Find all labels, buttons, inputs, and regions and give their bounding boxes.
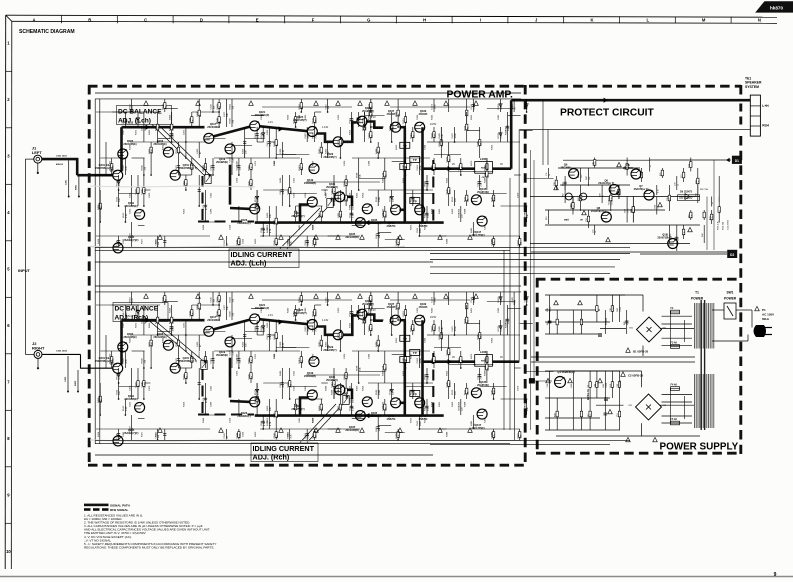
wire thick rails Q438/Q440 to Q442/Q444 <box>400 320 423 415</box>
svg-text:C536: C536 <box>446 381 448 387</box>
transistor Q405 (Lch) <box>118 139 137 159</box>
svg-text:R451: R451 <box>471 307 473 313</box>
svg-text:C414: C414 <box>477 373 479 379</box>
svg-text:6800: 6800 <box>315 118 317 124</box>
transistor Q435 (Lch) <box>362 204 380 225</box>
svg-text:24.5V: 24.5V <box>430 123 437 126</box>
svg-text:R461: R461 <box>439 208 441 214</box>
wire thick signal path Q422-Q426-Q430-Q434-Q438 <box>213 315 383 335</box>
svg-text:F5 4A: F5 4A <box>671 418 678 421</box>
svg-text:R430: R430 <box>155 125 157 131</box>
svg-text:SCHEMATIC DIAGRAM: SCHEMATIC DIAGRAM <box>19 29 75 35</box>
protect circuit / power supply right dashed edge <box>739 85 742 454</box>
fuse F3 4A <box>671 341 680 348</box>
svg-text:R456: R456 <box>249 357 251 363</box>
svg-text:C471: C471 <box>255 353 257 359</box>
wire thick signal path J1 to Q401 <box>42 158 114 175</box>
svg-text:0V: 0V <box>500 163 503 166</box>
svg-text:R460: R460 <box>452 208 454 214</box>
svg-text:2SC2330L: 2SC2330L <box>207 126 219 129</box>
svg-text:C554: C554 <box>464 125 466 131</box>
fuse F5 4A <box>671 418 680 425</box>
svg-text:47000/4: 47000/4 <box>620 379 622 387</box>
svg-text:C532: C532 <box>312 432 314 438</box>
wire thick signal path Q402 to Q418 <box>122 318 205 365</box>
svg-text:K: K <box>590 17 593 22</box>
svg-text:D: D <box>200 17 203 22</box>
svg-text:R420: R420 <box>255 238 257 244</box>
svg-text:R593: R593 <box>255 325 257 331</box>
transistor Q401 1/2 mirror (Rch) <box>95 356 123 373</box>
svg-text:C444: C444 <box>190 310 192 316</box>
svg-text:C419: C419 <box>230 224 232 230</box>
svg-text:R472: R472 <box>136 129 138 135</box>
svg-text:2SK270BL(or Y): 2SK270BL(or Y) <box>179 167 197 170</box>
svg-text:1.5V: 1.5V <box>216 315 221 318</box>
svg-text:2.1V: 2.1V <box>268 314 273 317</box>
transistor Q427 (Lch) <box>291 197 317 218</box>
svg-text:R442: R442 <box>432 114 434 120</box>
svg-text:C449: C449 <box>237 357 239 363</box>
svg-text:2SA872(E): 2SA872(E) <box>477 191 489 194</box>
transistor Q437 (Lch) <box>387 109 401 132</box>
wire protect-supply boundary columns <box>531 150 553 430</box>
wires protect circuit network <box>530 100 727 252</box>
svg-text:R413: R413 <box>299 357 301 363</box>
svg-text:R431: R431 <box>432 325 434 331</box>
svg-text:6800: 6800 <box>442 141 444 147</box>
svg-text:LEFT: LEFT <box>32 150 43 155</box>
svg-text:2SC845: 2SC845 <box>419 306 428 309</box>
svg-text:B: B <box>88 17 91 22</box>
svg-text:2SA995L(F): 2SA995L(F) <box>237 222 250 225</box>
svg-text:C441: C441 <box>217 296 219 302</box>
svg-text:2SA965(Y): 2SA965(Y) <box>326 379 338 382</box>
svg-text:C471: C471 <box>255 160 257 166</box>
svg-text:C587: C587 <box>491 389 493 395</box>
svg-text:R426: R426 <box>267 212 269 218</box>
label box IDLING CURRENT ADJ. (Lch) <box>229 208 327 268</box>
svg-text:R413: R413 <box>396 337 398 343</box>
svg-text:R588: R588 <box>356 172 358 178</box>
svg-text:C439: C439 <box>280 148 282 154</box>
transistor Q425 (Lch) <box>293 115 317 137</box>
svg-text:1k: 1k <box>677 184 679 186</box>
fuse F4 4A <box>671 383 680 390</box>
svg-text:R593: R593 <box>344 180 346 186</box>
svg-text:R416: R416 <box>349 385 351 391</box>
svg-text:C417: C417 <box>123 322 125 328</box>
svg-text:C441: C441 <box>305 239 307 245</box>
svg-text:wait: wait <box>564 219 569 222</box>
svg-text:R556: R556 <box>299 103 301 109</box>
svg-text:R489: R489 <box>439 325 441 331</box>
svg-text:2SA965(Y): 2SA965(Y) <box>362 303 374 306</box>
svg-text:R584: R584 <box>425 373 427 379</box>
svg-text:2.2k: 2.2k <box>698 180 700 184</box>
svg-text:24.5V: 24.5V <box>430 316 437 319</box>
svg-text:C532: C532 <box>349 212 351 218</box>
svg-text:R473: R473 <box>411 224 413 230</box>
svg-text:R543: R543 <box>163 296 165 302</box>
transistor Q401 7/2 (Lch) <box>170 163 197 180</box>
wire thick Lch output through L405 to speaker <box>423 98 751 172</box>
svg-text:R541: R541 <box>116 180 118 186</box>
svg-text:G: G <box>367 17 370 22</box>
wire thick signal path Q421-Q425-Q429-Q433-Q437 <box>213 122 383 142</box>
test point TP box <box>400 142 410 148</box>
transistor Q445 (Lch) <box>471 187 489 205</box>
svg-text:C424: C424 <box>242 431 244 437</box>
svg-text:R588: R588 <box>356 365 358 371</box>
svg-text:R445: R445 <box>432 357 434 363</box>
svg-text:C484: C484 <box>369 160 371 166</box>
svg-text:C420: C420 <box>149 192 151 198</box>
page bottom edge <box>0 576 793 578</box>
svg-text:2SA993(Y)(F): 2SA993(Y)(F) <box>124 432 139 435</box>
svg-text:R489: R489 <box>280 370 282 376</box>
notes block <box>83 514 216 550</box>
transistor Q435 mirror (Rch) <box>362 397 380 418</box>
transistor Q411 (Lch) <box>124 201 144 219</box>
svg-text:-2.1V: -2.1V <box>370 116 376 119</box>
svg-text:R510: R510 <box>129 296 131 302</box>
svg-text:R554: R554 <box>136 117 138 123</box>
svg-text:C487: C487 <box>305 325 307 331</box>
svg-text:R542: R542 <box>312 310 314 316</box>
svg-text:1.14V: 1.14V <box>322 319 329 322</box>
svg-text:4.7k: 4.7k <box>628 209 630 213</box>
svg-text:R523: R523 <box>452 389 454 395</box>
svg-text:C529: C529 <box>224 432 226 438</box>
transistor Q401 7/2 mirror (Rch) <box>170 356 197 373</box>
svg-text:R451: R451 <box>169 132 171 138</box>
transistor Q8 (protect) <box>591 206 611 222</box>
svg-text:R428: R428 <box>432 401 434 407</box>
svg-text:SW1: SW1 <box>727 291 734 295</box>
svg-text:R436: R436 <box>142 164 144 170</box>
svg-text:C459: C459 <box>344 160 346 166</box>
scan smear Lch <box>90 246 405 248</box>
power amp enclosure left dashed edge <box>88 85 91 466</box>
svg-text:C496: C496 <box>274 160 276 166</box>
wire transformer center taps <box>531 357 695 362</box>
svg-text:SIGNAL PATH: SIGNAL PATH <box>110 504 130 508</box>
transistor pair protect <box>565 193 586 200</box>
svg-text:C455: C455 <box>142 125 144 131</box>
transistor Q441 (Lch) <box>387 205 401 228</box>
svg-text:Q4 2SB049(C): Q4 2SB049(C) <box>557 370 574 374</box>
svg-text:C414: C414 <box>287 238 289 244</box>
svg-text:C563: C563 <box>116 389 118 395</box>
svg-text:2SD438(B): 2SD438(B) <box>304 375 316 378</box>
label INPUT <box>18 268 31 273</box>
svg-text:2SC1845(E): 2SC1845(E) <box>123 143 136 146</box>
svg-text:1k: 1k <box>650 165 652 167</box>
svg-text:C410: C410 <box>280 188 282 194</box>
svg-text:C564: C564 <box>261 227 263 233</box>
svg-text:C482: C482 <box>498 114 500 120</box>
svg-text:C482: C482 <box>498 307 500 313</box>
trimmer VR501 DC balance Lch <box>203 165 211 184</box>
svg-text:R584: R584 <box>425 180 427 186</box>
svg-text:R572: R572 <box>255 389 257 395</box>
svg-text:R466: R466 <box>169 307 171 313</box>
svg-text:ADJ. (Rch): ADJ. (Rch) <box>253 452 290 461</box>
scan smear Lch2 <box>90 186 255 187</box>
svg-text:C572: C572 <box>459 357 461 363</box>
svg-text:R436: R436 <box>142 357 144 363</box>
transistor Q411 mirror (Rch) <box>124 394 144 412</box>
svg-text:2.1V: 2.1V <box>268 121 273 124</box>
svg-text:2SK270BL(or Y): 2SK270BL(or Y) <box>179 360 197 363</box>
svg-text:C492: C492 <box>383 212 385 218</box>
test point TP box <box>400 357 410 363</box>
svg-text:C530: C530 <box>211 296 213 302</box>
svg-text:R430: R430 <box>446 370 448 376</box>
svg-text:C541: C541 <box>524 103 526 109</box>
svg-text:R402: R402 <box>74 380 77 386</box>
svg-text:2SC845: 2SC845 <box>419 113 428 116</box>
svg-text:H23A-1L: H23A-1L <box>586 388 590 400</box>
svg-text:F4 4A: F4 4A <box>671 383 678 386</box>
svg-text:2SC1845(E): 2SC1845(E) <box>153 143 166 146</box>
svg-text:C426: C426 <box>129 192 131 198</box>
svg-text:R494: R494 <box>203 224 205 230</box>
svg-text:R586: R586 <box>376 389 378 395</box>
svg-text:C541: C541 <box>524 296 526 302</box>
svg-text:C529: C529 <box>224 239 226 245</box>
svg-text:R420: R420 <box>255 431 257 437</box>
svg-text:2SC2230(B): 2SC2230(B) <box>345 429 358 432</box>
svg-text:B1 05FB-20: B1 05FB-20 <box>633 349 649 353</box>
diode D9 1S2473 <box>679 191 695 200</box>
svg-text:2SA995(E): 2SA995(E) <box>216 354 228 357</box>
svg-text:2SB750: 2SB750 <box>419 225 428 228</box>
transistor Q4 2SB049 <box>555 370 575 388</box>
svg-text:C420: C420 <box>267 322 269 328</box>
svg-text:R417: R417 <box>123 310 125 316</box>
svg-text:2SC2330L(F): 2SC2330L(F) <box>255 114 270 117</box>
svg-text:6800: 6800 <box>420 420 422 426</box>
svg-text:1k: 1k <box>677 239 679 241</box>
svg-text:R494: R494 <box>230 103 232 109</box>
svg-text:R471: R471 <box>149 148 151 154</box>
svg-text:R472: R472 <box>136 322 138 328</box>
svg-text:E: E <box>256 17 259 22</box>
svg-text:R488: R488 <box>376 341 378 347</box>
svg-text:0.022: 0.022 <box>613 306 615 312</box>
svg-text:C464: C464 <box>459 208 461 214</box>
svg-text:4.5mV: 4.5mV <box>126 122 133 125</box>
svg-text:R470: R470 <box>471 160 473 166</box>
label box IDLING CURRENT ADJ. (Rch) <box>251 404 343 462</box>
svg-text:C472: C472 <box>184 129 186 135</box>
svg-text:R422: R422 <box>274 333 276 339</box>
svg-text:R430: R430 <box>242 148 244 154</box>
svg-text:R426: R426 <box>267 405 269 411</box>
svg-text:47000/4: 47000/4 <box>606 317 608 325</box>
coil L406 <box>475 350 493 366</box>
svg-text:R488: R488 <box>464 401 466 407</box>
svg-text:R447: R447 <box>485 357 487 363</box>
svg-text:R422: R422 <box>169 125 171 131</box>
svg-text:R430: R430 <box>446 177 448 183</box>
test point TP box <box>410 391 420 397</box>
svg-text:M: M <box>702 17 706 22</box>
svg-text:POWER: POWER <box>691 297 704 301</box>
svg-text:C487: C487 <box>524 114 526 120</box>
svg-text:C423: C423 <box>129 401 131 407</box>
svg-text:R30 4.7k: R30 4.7k <box>718 220 720 230</box>
svg-text:R527: R527 <box>464 196 466 202</box>
svg-text:R491: R491 <box>349 117 351 123</box>
svg-text:R488: R488 <box>446 431 448 437</box>
page number 9 <box>774 572 777 578</box>
wires Lch amplifier network <box>95 93 554 262</box>
svg-text:C459: C459 <box>344 353 346 359</box>
svg-text:2SC2330L(F): 2SC2330L(F) <box>255 307 270 310</box>
transistor Q433 mirror (Rch) <box>357 299 374 319</box>
transistor Q9 (protect) <box>561 163 579 179</box>
svg-text:R510: R510 <box>129 103 131 109</box>
svg-text:D9 1S2473: D9 1S2473 <box>680 191 693 194</box>
transistor Q406 mirror (Rch) <box>153 332 173 350</box>
svg-text:C472: C472 <box>184 322 186 328</box>
wires supply rails between amp and power supply <box>95 247 630 444</box>
svg-text:R535: R535 <box>396 111 398 117</box>
fuse F2 <box>671 307 680 314</box>
svg-text:C574: C574 <box>203 204 205 210</box>
transistor Q443 mirror (Rch) <box>415 398 428 421</box>
svg-text:RcH: RcH <box>762 124 769 128</box>
svg-text:R31 33k: R31 33k <box>723 221 725 230</box>
svg-text:R454: R454 <box>403 370 405 376</box>
svg-text:R471: R471 <box>149 341 151 347</box>
svg-text:R459: R459 <box>149 322 151 328</box>
svg-text:R428: R428 <box>432 208 434 214</box>
svg-text:R535: R535 <box>396 304 398 310</box>
svg-text:R488: R488 <box>446 238 448 244</box>
svg-text:R477: R477 <box>142 431 144 437</box>
wire signal path J2 to Q402 <box>42 354 114 368</box>
svg-text:R488: R488 <box>376 148 378 154</box>
svg-text:C414: C414 <box>287 431 289 437</box>
svg-text:C560: C560 <box>417 420 419 426</box>
svg-text:R466: R466 <box>169 114 171 120</box>
svg-text:C525: C525 <box>485 172 487 178</box>
svg-text:10k: 10k <box>589 177 591 180</box>
svg-text:2SC1845(E): 2SC1845(E) <box>153 336 166 339</box>
svg-text:R430: R430 <box>242 341 244 347</box>
svg-text:C590: C590 <box>491 432 493 438</box>
svg-text:C587: C587 <box>491 196 493 202</box>
transistor Q439 (Lch) <box>415 109 428 132</box>
svg-text:R485: R485 <box>485 177 487 183</box>
svg-text:C436: C436 <box>237 177 239 183</box>
svg-text:2SA995L(F): 2SA995L(F) <box>237 415 250 418</box>
svg-text:VR502: VR502 <box>199 351 201 358</box>
svg-text:INPUT: INPUT <box>18 268 31 273</box>
svg-text:C411: C411 <box>325 297 327 303</box>
svg-text:C421: C421 <box>267 333 269 339</box>
svg-text:R593: R593 <box>255 132 257 138</box>
svg-text:R463: R463 <box>498 296 500 302</box>
svg-text:2SC2235(Y): 2SC2235(Y) <box>323 156 336 159</box>
svg-text:R438: R438 <box>267 227 269 233</box>
svg-text:R413: R413 <box>299 164 301 170</box>
svg-text:TP: TP <box>403 337 407 341</box>
svg-text:R470: R470 <box>471 353 473 359</box>
svg-text:R485: R485 <box>485 370 487 376</box>
svg-text:2SC2235(Y): 2SC2235(Y) <box>323 349 336 352</box>
bridge rectifier B2 <box>629 394 668 420</box>
svg-text:C421: C421 <box>293 177 295 183</box>
transistor Q417 (Lch) <box>204 122 219 143</box>
svg-text:C545: C545 <box>274 239 276 245</box>
svg-text:C447: C447 <box>237 160 239 166</box>
connector TE1 speaker system <box>745 76 769 136</box>
svg-text:C520: C520 <box>123 357 125 363</box>
svg-text:6800: 6800 <box>352 204 354 210</box>
svg-text:6800: 6800 <box>442 334 444 340</box>
svg-text:H: H <box>423 17 426 22</box>
svg-text:C11 47/50: C11 47/50 <box>728 219 730 230</box>
svg-text:C414: C414 <box>477 180 479 186</box>
svg-text:R455: R455 <box>349 129 351 135</box>
svg-text:C530: C530 <box>211 103 213 109</box>
svg-text:TP: TP <box>413 392 417 396</box>
svg-text:R415: R415 <box>376 232 378 238</box>
svg-text:2SA965(Y): 2SA965(Y) <box>362 110 374 113</box>
svg-text:C593: C593 <box>274 412 276 418</box>
svg-text:R455: R455 <box>349 322 351 328</box>
transistor Q10 (protect) <box>657 233 677 249</box>
svg-text:VR501: VR501 <box>203 165 205 172</box>
svg-text:C470: C470 <box>517 385 519 391</box>
svg-text:R489: R489 <box>396 432 398 438</box>
svg-text:N: N <box>758 17 761 22</box>
svg-text:R415: R415 <box>376 425 378 431</box>
transistor Q431 mirror (Rch) <box>326 375 345 395</box>
svg-text:10: 10 <box>6 549 11 554</box>
svg-text:C421: C421 <box>293 370 295 376</box>
svg-text:R518: R518 <box>312 325 314 331</box>
transistor Q435 (Lch) <box>345 218 365 239</box>
test point TP box <box>410 156 420 162</box>
svg-text:C419: C419 <box>230 417 232 423</box>
dashed divider between power amp and protect/power supply <box>524 85 527 466</box>
label PROTECT CIRCUIT <box>560 107 655 118</box>
svg-text:C474: C474 <box>432 103 434 109</box>
svg-text:TP: TP <box>413 199 417 203</box>
label box DC BALANCE ADJ. (Rch) <box>113 303 202 361</box>
svg-text:R512: R512 <box>123 405 125 411</box>
relay drive D1 <box>650 156 742 164</box>
svg-text:R586: R586 <box>376 196 378 202</box>
transistor Q429 mirror (Rch) <box>323 330 343 352</box>
transistor Q406 (Lch) <box>153 139 173 157</box>
wires bridge to transformer <box>662 311 693 423</box>
svg-text:T1: T1 <box>695 291 699 295</box>
svg-text:R435: R435 <box>356 192 358 198</box>
svg-text:2SC845: 2SC845 <box>387 306 396 309</box>
transistor Q417 mirror (Rch) <box>204 315 219 336</box>
label POWER SUPPLY <box>660 441 739 452</box>
svg-text:2SB750: 2SB750 <box>387 225 396 228</box>
svg-text:C420: C420 <box>149 385 151 391</box>
test point TP box <box>400 335 410 341</box>
